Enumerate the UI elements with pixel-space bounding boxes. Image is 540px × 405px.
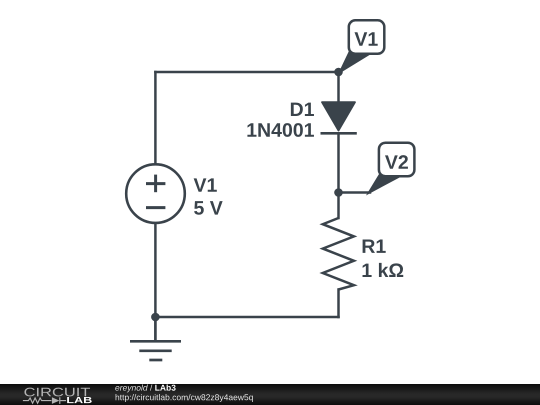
- wire top horizontal: [155, 71, 338, 74]
- wire resistor to bottom: [337, 290, 340, 318]
- node junction V2: [334, 188, 343, 197]
- node flag V1: [340, 20, 385, 72]
- CircuitLab logo: [0, 384, 110, 405]
- wire diode cathode to node V2: [337, 134, 340, 193]
- node flag V2: [368, 143, 414, 194]
- resistor R1: [323, 218, 354, 290]
- wire node V2 to resistor: [337, 193, 340, 219]
- ground: [130, 317, 181, 360]
- label R1 1 kOhm: [363, 239, 404, 277]
- footer bar: [0, 384, 540, 405]
- wire node V2 stub right: [339, 191, 371, 194]
- label V1 value: [194, 178, 223, 214]
- wire right rail top: [337, 72, 340, 103]
- voltage source V1: [126, 164, 185, 223]
- label D1 1N4001: [247, 103, 314, 137]
- footer credit text: [0, 384, 300, 405]
- diode D1: [321, 102, 357, 133]
- wire left rail lower: [154, 224, 157, 317]
- node junction ground: [151, 313, 160, 322]
- wire bottom horizontal: [155, 316, 338, 319]
- node junction top: [334, 68, 343, 77]
- wire left rail upper: [154, 72, 157, 164]
